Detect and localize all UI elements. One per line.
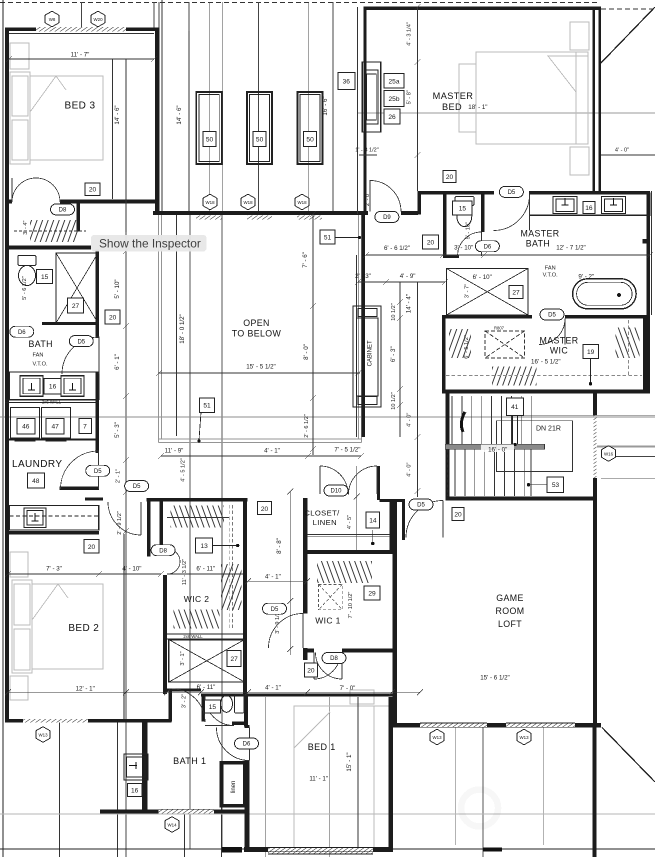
gray guide line middle <box>0 416 655 418</box>
svg-text:29: 29 <box>368 591 376 598</box>
svg-text:D10: D10 <box>330 489 342 495</box>
svg-text:4' - 10": 4' - 10" <box>122 566 141 573</box>
master wic hatch bottom <box>492 367 537 386</box>
svg-text:D6: D6 <box>484 244 492 250</box>
svg-text:ROOM: ROOM <box>496 606 525 616</box>
wic1 D8 doors <box>314 653 341 680</box>
bed3 top wall inner line <box>9 32 154 35</box>
svg-text:2' - 6 1/2": 2' - 6 1/2" <box>304 414 310 438</box>
svg-text:W8: W8 <box>49 17 56 22</box>
dim ext right y478 <box>601 477 655 479</box>
open-below south wall <box>153 211 418 215</box>
svg-text:2' - 3": 2' - 3" <box>355 273 371 280</box>
porch line 3 <box>184 813 186 857</box>
bed3 nightstand <box>10 43 29 69</box>
svg-text:1' - 3 1/2": 1' - 3 1/2" <box>355 148 379 154</box>
svg-text:15: 15 <box>459 206 467 213</box>
svg-text:WIC 2: WIC 2 <box>184 594 210 604</box>
svg-text:D5: D5 <box>417 503 425 509</box>
bottom plot line <box>0 848 655 850</box>
gray guide line lower <box>0 813 655 815</box>
open-below gray edge south <box>158 438 361 440</box>
laundry door arc <box>61 451 99 489</box>
svg-text:5' - 3": 5' - 3" <box>114 422 121 438</box>
master bath east wall <box>647 191 651 394</box>
svg-text:GAME: GAME <box>496 593 524 603</box>
master bed east wall outer <box>598 7 601 192</box>
master bed nightstand bottom <box>570 147 589 175</box>
dim vline open 14-6 <box>188 31 190 211</box>
dim vline right margin <box>651 191 653 315</box>
wic2 block south wall <box>163 689 201 692</box>
grid line B <box>188 2 190 211</box>
bath1 wc west wall <box>201 697 205 722</box>
svg-text:15' - 5 1/2": 15' - 5 1/2" <box>246 364 276 371</box>
door tag D5 masterwic <box>540 309 564 320</box>
svg-text:3' - 10": 3' - 10" <box>454 244 473 251</box>
svg-text:D6: D6 <box>243 742 251 748</box>
svg-text:11' - 7": 11' - 7" <box>71 52 90 59</box>
bath1 wc door arc <box>205 697 234 726</box>
hall chase thin line <box>356 255 358 437</box>
svg-text:D5: D5 <box>77 339 85 345</box>
svg-text:BATH: BATH <box>28 339 52 349</box>
svg-text:BATH 1: BATH 1 <box>173 756 206 766</box>
bed2 south wall <box>5 719 172 723</box>
grid line G <box>332 2 334 211</box>
skylight frame 3 <box>298 92 323 164</box>
master tub <box>573 279 637 309</box>
ext line 265 <box>265 697 267 857</box>
closet linen jog wall <box>380 499 406 502</box>
svg-text:11' - 9": 11' - 9" <box>165 448 184 455</box>
svg-text:MASTER: MASTER <box>539 336 578 346</box>
svg-text:10 1/2": 10 1/2" <box>391 392 397 410</box>
hall north wall stub <box>85 497 103 500</box>
master bed mattress <box>476 52 588 144</box>
svg-text:50: 50 <box>206 137 214 144</box>
bed1 west wall <box>245 725 250 852</box>
grid line D <box>222 2 224 211</box>
svg-text:15: 15 <box>209 704 217 711</box>
master shower <box>447 269 529 316</box>
door tag D6 bath <box>10 326 34 337</box>
svg-text:4' - 3 1/4": 4' - 3 1/4" <box>406 22 412 46</box>
svg-text:CLOSET/: CLOSET/ <box>304 509 340 518</box>
svg-text:25a: 25a <box>388 78 399 85</box>
leader line 19 <box>590 358 592 384</box>
svg-text:46: 46 <box>22 424 30 431</box>
closet west wall <box>303 498 308 660</box>
bed3 mattress <box>30 76 103 160</box>
svg-text:6' - 11": 6' - 11" <box>196 566 215 573</box>
svg-text:D6: D6 <box>18 330 26 336</box>
bed3/open wall east <box>155 28 160 212</box>
dim line open 15-5 <box>158 372 360 374</box>
master wic door arc <box>539 319 565 345</box>
dim line hall 4-1 <box>248 580 307 582</box>
svg-text:4' - 0": 4' - 0" <box>407 413 413 427</box>
stairs rail gray bar <box>445 444 544 449</box>
dim ext right y415 <box>520 414 655 416</box>
master bath faucets <box>562 198 618 205</box>
bath1 faucet <box>129 762 137 769</box>
right exterior wall lower <box>592 723 596 857</box>
svg-text:27: 27 <box>512 290 520 297</box>
svg-text:12' - 1": 12' - 1" <box>76 686 95 693</box>
svg-text:41: 41 <box>511 404 519 411</box>
bed3 east wall top extension <box>153 2 155 28</box>
master bath top wall jog <box>418 195 422 215</box>
dim line wic2 <box>167 573 243 575</box>
bath shower <box>56 253 98 323</box>
svg-text:18' - 0 1/2": 18' - 0 1/2" <box>179 314 186 344</box>
hall wc west wall <box>168 689 172 722</box>
grid line E <box>257 2 259 211</box>
svg-text:linen: linen <box>231 781 237 794</box>
svg-text:47: 47 <box>52 424 60 431</box>
svg-text:7' - 6": 7' - 6" <box>302 252 309 268</box>
hall door leaf and arc <box>108 502 141 535</box>
bed1 window frame lines <box>268 848 373 854</box>
dim vline bed3 14-6 <box>112 59 114 199</box>
svg-text:2x6 WALL: 2x6 WALL <box>183 634 203 639</box>
svg-text:7' - 0": 7' - 0" <box>340 685 356 692</box>
svg-text:BED: BED <box>442 102 462 112</box>
svg-text:11' - 1": 11' - 1" <box>309 775 328 782</box>
ext line 330 <box>329 697 331 857</box>
master wic R807 duct <box>485 331 525 358</box>
dim line right of stairs <box>601 456 655 458</box>
bath1 south wall <box>100 809 247 813</box>
dryer <box>42 408 71 442</box>
svg-text:7' - 10 1/2": 7' - 10 1/2" <box>348 592 354 619</box>
master bed door arc D9 <box>370 181 401 212</box>
dim line bottom row <box>8 691 420 693</box>
leader line 41 <box>513 416 518 445</box>
dim vline closet 356 <box>356 466 358 550</box>
bed3 south wall <box>5 200 155 204</box>
west exterior wall <box>5 28 9 723</box>
bed3 pillow fold <box>30 76 56 112</box>
dim line bed3 11-7 <box>9 58 154 60</box>
bed1 door arc <box>217 728 250 761</box>
master bath door arc D5 <box>494 195 530 231</box>
game windows frame lines <box>420 723 575 727</box>
stairs up arrow <box>461 412 465 432</box>
door tag D5 masterbath <box>499 186 523 197</box>
bath interior south wall <box>42 322 97 325</box>
grid line C <box>209 2 211 211</box>
window tag W14 <box>165 817 179 833</box>
svg-text:6' - 11": 6' - 11" <box>197 684 216 691</box>
svg-text:50: 50 <box>306 137 314 144</box>
bath faucets <box>28 383 76 390</box>
svg-text:20: 20 <box>427 240 435 247</box>
laundry counter <box>10 506 99 531</box>
bath1 entry arc <box>172 689 205 722</box>
porch post line 2 <box>117 722 119 857</box>
bed1 pillow fold <box>294 710 330 748</box>
svg-text:26: 26 <box>388 114 396 121</box>
stair south wall <box>446 497 598 501</box>
master bath top wall <box>418 191 651 195</box>
svg-text:W18: W18 <box>243 200 253 205</box>
svg-text:10 1/2": 10 1/2" <box>391 303 397 321</box>
bed2 south window hatch <box>23 719 88 723</box>
bed2 headboard <box>12 580 32 673</box>
svg-text:8' - 0": 8' - 0" <box>303 344 310 360</box>
bed1 platform <box>294 706 390 848</box>
svg-text:D5: D5 <box>94 469 102 475</box>
master suite top wall <box>364 7 602 11</box>
leader line 14 <box>372 530 374 543</box>
svg-text:53: 53 <box>552 482 560 489</box>
extension line bed2 <box>125 232 127 857</box>
bed3 top exterior wall <box>5 28 160 32</box>
window tag W13 a <box>36 727 50 743</box>
bath vanity <box>10 372 99 399</box>
svg-text:14' - 6": 14' - 6" <box>176 105 183 124</box>
closet linen east wall upper <box>377 466 380 500</box>
wic2 shower <box>169 640 245 682</box>
svg-text:3' - 4": 3' - 4" <box>23 220 29 234</box>
game room south windows hatch <box>420 723 487 727</box>
leader line 51 top <box>335 237 359 239</box>
master wc door arc <box>458 232 482 256</box>
bed2 east wall <box>123 534 125 719</box>
left property line <box>2 0 4 857</box>
open-below gray edge east <box>357 215 359 439</box>
stair east window hatch <box>593 416 596 479</box>
number boxes <box>17 73 599 797</box>
wic2 hatch right <box>221 564 242 610</box>
closet south / wic1 north wall <box>303 550 393 554</box>
svg-text:20: 20 <box>446 174 454 181</box>
laundry south wall <box>60 487 100 490</box>
door tag D5 hall <box>125 481 149 492</box>
bath1 vanity <box>124 754 148 780</box>
svg-text:3' - 1": 3' - 1" <box>180 651 186 665</box>
svg-text:3' - 7": 3' - 7" <box>465 284 471 298</box>
svg-text:4' - 9": 4' - 9" <box>400 273 416 280</box>
svg-text:D5: D5 <box>133 484 141 490</box>
master wc toilet <box>455 197 474 227</box>
svg-text:FAN: FAN <box>33 353 44 359</box>
svg-text:4' - 0": 4' - 0" <box>407 462 413 476</box>
svg-text:11' - 3 1/2": 11' - 3 1/2" <box>182 559 188 585</box>
bottom tick right <box>483 848 502 852</box>
door tag D8 wic2 <box>151 545 175 556</box>
svg-text:WIC: WIC <box>550 346 569 356</box>
open-below window hatches <box>196 215 222 219</box>
stairs lower dashed edge <box>447 450 449 497</box>
roof diagonal top-right <box>599 7 655 65</box>
svg-text:20: 20 <box>109 315 117 322</box>
svg-text:14' - 4": 14' - 4" <box>406 294 413 313</box>
bed3 top window hatch <box>36 27 126 32</box>
svg-text:5' - 10": 5' - 10" <box>114 279 121 298</box>
game room door arc <box>406 501 443 538</box>
svg-text:15' - 1": 15' - 1" <box>346 752 353 771</box>
svg-text:OPEN: OPEN <box>243 318 270 328</box>
window tag W13 b <box>430 729 444 745</box>
svg-text:4' - 1": 4' - 1" <box>265 573 281 580</box>
hall closet west jamb <box>147 502 151 557</box>
washer <box>11 408 40 442</box>
dim line open below bottom <box>161 455 361 457</box>
dim texts horizontal <box>46 52 629 783</box>
linen wall extension <box>221 807 223 857</box>
closet linen east wall lower <box>390 502 393 551</box>
bed1 south window hatch <box>268 848 373 851</box>
svg-text:4' - 5 1/2": 4' - 5 1/2" <box>181 458 187 482</box>
wc south stub <box>443 255 459 259</box>
bed2 window frame lines <box>23 719 88 722</box>
svg-text:20: 20 <box>261 506 269 513</box>
svg-text:27: 27 <box>231 656 239 663</box>
door tag D5 laundry <box>86 465 110 476</box>
washer closet south wall <box>5 439 99 441</box>
bottom tick left <box>222 847 242 852</box>
roof diagonal bottom-right <box>602 728 655 783</box>
door tag D5 wic1 <box>263 603 287 614</box>
master wic west wall <box>442 315 446 394</box>
svg-text:V.T.O.: V.T.O. <box>543 273 558 279</box>
window tag W18 c <box>295 194 309 210</box>
hall chase wall below <box>362 214 366 437</box>
bath1 wc north wall <box>201 693 393 696</box>
game room west wall <box>393 499 397 728</box>
window tag W16 <box>602 446 616 462</box>
porch post line 1 <box>59 722 61 857</box>
svg-text:20: 20 <box>307 668 315 675</box>
linen closet <box>220 761 224 808</box>
svg-text:W13: W13 <box>38 732 48 737</box>
svg-text:51: 51 <box>203 403 211 410</box>
bath door arc <box>62 337 99 374</box>
svg-text:2' - 1": 2' - 1" <box>116 469 122 483</box>
window tag W18 b <box>241 194 255 210</box>
svg-text:D5: D5 <box>548 313 556 319</box>
bath1 window frame lines <box>159 810 215 814</box>
stair east wall <box>593 394 597 728</box>
bed3 closet east wall <box>77 204 81 232</box>
bed3 headboard <box>10 72 30 164</box>
leader line 53 <box>529 484 548 486</box>
stairs lower treads <box>455 450 531 497</box>
stair west wall <box>446 394 450 501</box>
wic2 hatch top <box>171 506 225 528</box>
master suite west chase wall <box>364 7 367 214</box>
top dashed border line <box>0 2 600 4</box>
svg-text:6' - 3": 6' - 3" <box>390 346 397 362</box>
dim line master mini 155 <box>359 154 377 156</box>
svg-text:5' - 10": 5' - 10" <box>466 222 472 239</box>
bath 2x6 wall <box>5 399 99 401</box>
master bed bench <box>459 64 476 132</box>
closet D10 double doors <box>320 466 348 494</box>
svg-text:W16: W16 <box>604 451 614 456</box>
svg-text:2x6 WALL: 2x6 WALL <box>392 600 397 620</box>
svg-text:BED 2: BED 2 <box>68 623 99 634</box>
bath1 west wall <box>142 722 148 811</box>
hall closet east jamb <box>160 502 164 548</box>
svg-text:D9: D9 <box>383 215 391 221</box>
svg-text:LOFT: LOFT <box>498 619 522 629</box>
svg-text:V.T.O.: V.T.O. <box>32 362 47 368</box>
svg-text:9' - 2": 9' - 2" <box>578 274 594 281</box>
stair dim plate <box>481 445 514 453</box>
game room south wall <box>393 723 601 728</box>
laundry sink faucet <box>32 513 39 521</box>
fireplace chase <box>362 62 380 132</box>
bed1 east wall <box>389 697 394 852</box>
svg-text:19: 19 <box>587 349 595 356</box>
svg-text:48: 48 <box>32 478 40 485</box>
svg-text:MASTER: MASTER <box>520 229 559 239</box>
svg-text:4' - 5": 4' - 5" <box>347 515 353 529</box>
svg-text:14: 14 <box>369 518 377 525</box>
leader line 51 bottom <box>199 412 201 440</box>
master wic east wall <box>643 315 647 394</box>
bed2 pillow fold <box>32 584 58 620</box>
skylight frame 2 <box>247 92 272 164</box>
svg-text:6' - 1": 6' - 1" <box>114 354 121 370</box>
svg-text:7: 7 <box>83 423 87 430</box>
svg-text:W13: W13 <box>519 735 529 740</box>
wic2 east wall <box>243 498 247 694</box>
stairs lower flight outline <box>496 421 572 472</box>
bed3 closet south wall <box>5 246 91 250</box>
svg-text:6' - 6 1/2": 6' - 6 1/2" <box>384 245 410 252</box>
dim line bed2 top <box>8 573 161 575</box>
svg-text:25b: 25b <box>388 96 399 103</box>
dim vline cabinet 390 <box>399 282 401 437</box>
gray guide line upper <box>358 112 655 114</box>
long section line I <box>221 214 223 849</box>
bath1 wc east wall <box>244 697 248 727</box>
bed1 south wall <box>244 847 391 852</box>
dim line master 2-3 4-9 <box>358 281 445 283</box>
svg-text:20: 20 <box>454 512 462 519</box>
window tag W20 <box>91 11 105 27</box>
svg-text:MASTER: MASTER <box>433 91 474 101</box>
master bath east wall notch <box>643 239 651 244</box>
window tag W13 c <box>517 729 531 745</box>
svg-text:D5: D5 <box>271 607 279 613</box>
svg-text:4' - 0": 4' - 0" <box>615 148 629 154</box>
wic2 west wall <box>163 575 167 694</box>
master bath vanity <box>530 193 650 215</box>
svg-text:LAUNDRY: LAUNDRY <box>12 459 62 470</box>
bed3 closet hatch <box>30 220 78 242</box>
bath toilet <box>18 255 36 285</box>
svg-text:D8: D8 <box>159 548 167 554</box>
master bed headboard <box>576 52 588 144</box>
grid line F <box>308 2 310 211</box>
gray rail stub right <box>597 446 655 448</box>
wic2 2x6 wall <box>167 633 243 635</box>
dim texts rotated <box>22 22 472 771</box>
game hall west wall <box>402 499 405 540</box>
wic1 south wall <box>303 649 393 653</box>
wc west wall <box>443 195 447 259</box>
svg-text:CABINET: CABINET <box>368 340 374 366</box>
master wic hatch left <box>449 329 471 358</box>
svg-text:7' - 3": 7' - 3" <box>46 566 62 573</box>
skylight frame 1 <box>196 92 221 164</box>
